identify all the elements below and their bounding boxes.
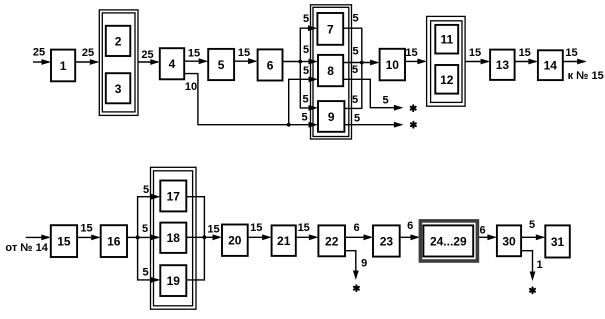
box 9 xyxy=(318,101,344,132)
svg-text:13: 13 xyxy=(496,58,510,72)
junction on box 8 output xyxy=(360,61,364,65)
svg-text:5: 5 xyxy=(302,94,308,106)
frame around boxes 7-9 xyxy=(311,5,352,139)
svg-text:10: 10 xyxy=(185,81,197,93)
svg-text:15: 15 xyxy=(469,47,481,59)
svg-text:3: 3 xyxy=(115,82,122,96)
svg-text:14: 14 xyxy=(544,59,558,73)
arrow box 21 to box 22 xyxy=(296,234,319,240)
svg-text:20: 20 xyxy=(228,234,242,248)
svg-text:9: 9 xyxy=(328,110,335,124)
svg-text:5: 5 xyxy=(352,94,358,106)
arrow box 15 to box 16 xyxy=(77,235,101,241)
arrow box 13 to box 14 xyxy=(515,59,538,65)
box 24...29 xyxy=(423,225,473,256)
wire box 8 output to box 10 xyxy=(343,60,379,66)
box 16 xyxy=(101,225,127,257)
box 23 xyxy=(373,225,400,256)
svg-text:8: 8 xyxy=(327,64,334,78)
svg-text:15: 15 xyxy=(188,48,200,60)
svg-text:5: 5 xyxy=(352,64,358,76)
arrow input to box 15 xyxy=(26,235,51,241)
svg-text:15: 15 xyxy=(57,235,71,249)
wire junction to box 18 xyxy=(138,235,161,241)
svg-text:17: 17 xyxy=(167,189,181,203)
svg-text:5: 5 xyxy=(142,267,148,279)
box 22 xyxy=(318,225,345,256)
svg-text:11: 11 xyxy=(440,33,453,47)
arrow frame 24-29 to box 30 xyxy=(479,234,497,240)
svg-text:15: 15 xyxy=(565,47,577,59)
junction on box 18 output xyxy=(202,235,206,239)
star output 2 xyxy=(411,122,416,128)
box 4 xyxy=(160,48,184,79)
junction on bottom feed line xyxy=(287,123,291,127)
svg-text:25: 25 xyxy=(33,47,45,59)
box 2 xyxy=(106,26,131,56)
svg-text:5: 5 xyxy=(529,219,535,231)
svg-text:30: 30 xyxy=(502,234,516,248)
arrow box 20 to box 21 xyxy=(248,234,272,240)
svg-text:12: 12 xyxy=(440,73,454,87)
arrow box 22 to box 23 xyxy=(345,234,373,240)
box 1 xyxy=(51,50,75,82)
wire junction up to box 7 xyxy=(300,25,317,61)
svg-text:5: 5 xyxy=(352,46,358,58)
star output 3 xyxy=(354,285,359,291)
wire junction to box 9 lower input xyxy=(289,122,318,128)
arrow box 4 to box 5 xyxy=(184,58,208,64)
svg-text:6: 6 xyxy=(354,222,360,234)
star output 4 xyxy=(530,287,535,293)
svg-text:16: 16 xyxy=(107,235,121,249)
svg-text:10: 10 xyxy=(386,58,400,72)
svg-text:7: 7 xyxy=(327,22,334,36)
wire junction up to box 17 xyxy=(138,194,161,238)
junction on box 6 output xyxy=(298,60,302,64)
arrow box 23 to frame 24-29 xyxy=(400,234,420,240)
box 31 xyxy=(545,225,570,257)
box 17 xyxy=(160,181,186,212)
box 15 xyxy=(51,225,77,257)
wire box 22 second output down to star xyxy=(345,251,359,280)
wire junction down to box 19 xyxy=(138,237,161,282)
wire box 4 second output down and right xyxy=(184,74,289,125)
box 5 xyxy=(208,49,234,80)
svg-text:15: 15 xyxy=(80,222,92,234)
frame around box 24-29 xyxy=(420,221,477,261)
svg-text:6: 6 xyxy=(407,220,413,232)
box 19 xyxy=(160,265,186,296)
svg-text:1: 1 xyxy=(60,59,67,73)
svg-text:15: 15 xyxy=(519,47,531,59)
wire junction to box 8 upper input xyxy=(300,59,318,65)
svg-text:19: 19 xyxy=(167,274,181,288)
box 18 xyxy=(160,223,186,253)
wire box 9 upper output up to junction xyxy=(344,63,361,109)
wire box 30 second output down to star xyxy=(521,251,535,281)
svg-text:25: 25 xyxy=(141,49,153,61)
wire box 17 output down to junction xyxy=(186,197,204,238)
svg-text:от № 14: от № 14 xyxy=(5,242,48,254)
box 12 xyxy=(435,65,458,94)
wire box 16 to junction xyxy=(127,236,138,238)
svg-text:31: 31 xyxy=(551,235,565,249)
svg-text:5: 5 xyxy=(301,112,307,124)
box 6 xyxy=(258,49,283,80)
svg-text:23: 23 xyxy=(380,235,394,249)
svg-text:18: 18 xyxy=(167,231,181,245)
box 11 xyxy=(435,25,458,54)
arrow box 5 to box 6 xyxy=(234,58,258,64)
frame around boxes 11-12 xyxy=(427,16,466,106)
box 30 xyxy=(497,225,521,256)
arrow frame 11-12 to box 13 xyxy=(465,59,490,65)
svg-text:15: 15 xyxy=(405,47,417,59)
svg-text:15: 15 xyxy=(238,47,250,59)
svg-text:15: 15 xyxy=(250,222,262,234)
wire junction down to box 9 upper input xyxy=(300,62,318,111)
box 14 xyxy=(538,50,563,80)
svg-text:9: 9 xyxy=(361,258,367,270)
svg-text:6: 6 xyxy=(267,59,274,73)
svg-text:5: 5 xyxy=(142,223,148,235)
svg-text:5: 5 xyxy=(303,65,309,77)
box 7 xyxy=(317,13,343,45)
svg-text:21: 21 xyxy=(277,234,291,248)
svg-text:6: 6 xyxy=(480,224,486,236)
svg-text:1: 1 xyxy=(537,259,543,271)
arrow box 1 to frame 2-3 xyxy=(75,59,99,65)
svg-text:4: 4 xyxy=(169,57,176,71)
svg-text:15: 15 xyxy=(298,222,310,234)
arrow box 10 to frame 11-12 xyxy=(405,59,427,65)
box 13 xyxy=(490,50,514,80)
wire box 18 output to box 20 xyxy=(186,234,222,240)
svg-text:5: 5 xyxy=(303,44,309,56)
box 10 xyxy=(380,49,405,81)
wire box 6 to junction xyxy=(283,61,301,63)
star output 1 xyxy=(411,105,416,111)
svg-text:5: 5 xyxy=(354,113,360,125)
frame around boxes 2-3 xyxy=(99,10,138,116)
svg-text:2: 2 xyxy=(115,34,122,48)
svg-text:5: 5 xyxy=(382,95,388,107)
svg-text:5: 5 xyxy=(218,58,225,72)
box 3 xyxy=(106,73,131,103)
box 8 xyxy=(318,55,343,86)
svg-text:5: 5 xyxy=(352,13,358,25)
svg-text:5: 5 xyxy=(303,13,309,25)
svg-text:15: 15 xyxy=(207,224,219,236)
wire box 7 output down to junction xyxy=(343,28,362,62)
svg-text:22: 22 xyxy=(325,234,339,248)
wire box 8 lower output to star xyxy=(343,79,403,110)
svg-text:к № 15: к № 15 xyxy=(568,70,604,82)
box 21 xyxy=(272,225,296,256)
arrow input to box 1 xyxy=(33,59,51,65)
arrow box 14 output xyxy=(563,59,587,65)
junction on box 16 output xyxy=(136,235,140,239)
arrow box 30 to box 31 xyxy=(521,234,545,240)
svg-text:5: 5 xyxy=(143,184,149,196)
frame around boxes 17-19 xyxy=(151,167,197,309)
svg-text:25: 25 xyxy=(82,47,94,59)
wire box 9 lower output to star xyxy=(344,122,403,128)
box 20 xyxy=(222,225,248,256)
wire junction up to box 8 lower input xyxy=(289,76,318,124)
wire box 19 output up to junction xyxy=(186,237,204,280)
arrow frame 2-3 to box 4 xyxy=(138,59,160,65)
svg-text:24...29: 24...29 xyxy=(430,234,467,248)
